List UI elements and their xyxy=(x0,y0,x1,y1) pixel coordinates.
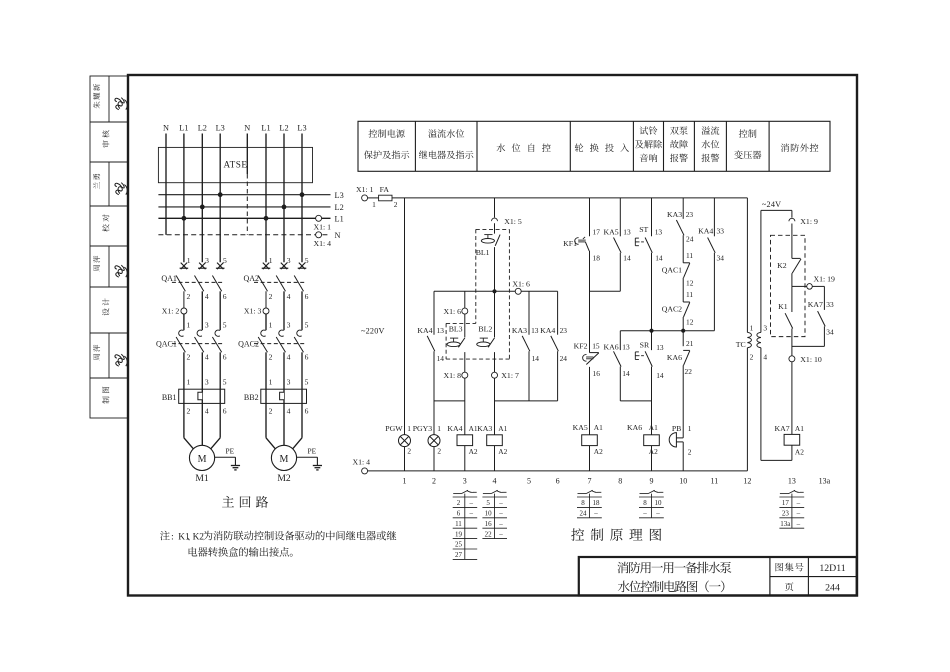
strip name cell 周萍 xyxy=(108,333,110,378)
svg-text:KA7: KA7 xyxy=(808,300,823,309)
svg-text:8: 8 xyxy=(643,499,647,507)
svg-text:KA6: KA6 xyxy=(667,353,682,362)
svg-text:~220V: ~220V xyxy=(361,326,385,335)
wire KA3 to QAC1 xyxy=(682,235,684,262)
svg-text:KA3: KA3 xyxy=(477,424,492,433)
wire KA3 contact to tie xyxy=(528,351,530,401)
svg-text:22: 22 xyxy=(485,530,493,538)
wire X1:6 to branch 6 xyxy=(521,290,557,292)
svg-text:A2: A2 xyxy=(469,447,478,456)
svg-text:14: 14 xyxy=(622,369,630,378)
terminal X1:5 xyxy=(492,218,498,221)
wire coil KA5 to rail xyxy=(589,446,591,471)
svg-text:4: 4 xyxy=(287,352,291,361)
svg-text:K2: K2 xyxy=(777,261,787,270)
signature scribble xyxy=(115,354,127,366)
svg-text:5: 5 xyxy=(223,320,227,329)
wire branch2-branch3 tie xyxy=(434,400,465,402)
svg-text:6: 6 xyxy=(223,292,227,301)
wire coil KA7 return to TC xyxy=(791,445,793,460)
header cell 溢流水位报警 xyxy=(702,126,720,135)
svg-text:14: 14 xyxy=(655,254,663,263)
svg-text:–: – xyxy=(469,499,474,507)
svg-text:15: 15 xyxy=(592,342,600,351)
header cell 控制电源保护及指示 xyxy=(369,129,405,137)
wire lamp PGW to rail xyxy=(404,447,406,471)
wire feeder drops source 1 xyxy=(183,134,185,263)
dashed enclosure BL1/BL2/BL3 xyxy=(476,228,510,230)
svg-text:A1: A1 xyxy=(649,423,658,432)
header cell 水位自控 xyxy=(497,143,551,151)
svg-text:13a: 13a xyxy=(819,476,831,485)
svg-text:6: 6 xyxy=(223,406,227,415)
svg-text:~24V: ~24V xyxy=(762,200,781,209)
junction dots on buses xyxy=(182,216,187,221)
wire alarm down to KA6 13-14 xyxy=(619,331,621,350)
svg-text:11: 11 xyxy=(686,290,693,299)
header cell 试铃及解除音响 xyxy=(640,126,658,134)
svg-text:A2: A2 xyxy=(594,447,603,456)
svg-text:1: 1 xyxy=(187,256,191,265)
svg-text:10: 10 xyxy=(654,499,662,507)
svg-text:L1: L1 xyxy=(335,215,344,224)
strip name cell 周萍 xyxy=(108,246,110,287)
svg-text:PGW: PGW xyxy=(385,424,403,433)
svg-text:TC: TC xyxy=(736,340,746,349)
header cell 轮换投入 xyxy=(575,143,629,152)
branch 4 wire from rail xyxy=(494,198,496,218)
wire coil KA3 to rail xyxy=(494,446,496,471)
wire X1:10 to coil KA7 xyxy=(791,362,793,435)
wire terminal to fuse xyxy=(368,197,379,199)
branch 1 wire xyxy=(404,198,406,435)
svg-text:KA7: KA7 xyxy=(775,424,790,433)
svg-text:FA: FA xyxy=(380,185,390,194)
circuit breaker QA1 xyxy=(181,263,187,270)
svg-text:–: – xyxy=(593,510,598,518)
svg-text:2: 2 xyxy=(187,406,191,415)
wire KA4 33-34 to alarm wire xyxy=(713,253,715,331)
svg-text:–: – xyxy=(655,510,660,518)
svg-text:22: 22 xyxy=(685,367,693,376)
title strip column xyxy=(90,76,128,418)
wire cable to motor M1 xyxy=(201,403,203,445)
wire KF1 to KF2 xyxy=(589,251,591,353)
relay coil KA7 xyxy=(784,434,800,445)
svg-text:2: 2 xyxy=(437,447,441,456)
svg-text:N: N xyxy=(244,124,250,133)
svg-text:N: N xyxy=(335,231,341,240)
svg-text:KA3: KA3 xyxy=(667,210,682,219)
junction dot branch 9 alarm xyxy=(649,329,653,333)
svg-text:–: – xyxy=(498,510,503,518)
svg-text:–: – xyxy=(642,510,647,518)
svg-text:4: 4 xyxy=(763,353,767,362)
svg-text:X1: 4: X1: 4 xyxy=(353,457,371,466)
svg-text:BL1: BL1 xyxy=(476,248,490,257)
terminal X1:6 inline xyxy=(515,288,521,294)
svg-text:QAC1: QAC1 xyxy=(156,340,177,349)
wire KA4 23-24 to tie xyxy=(557,351,559,401)
svg-text:L3: L3 xyxy=(216,124,225,133)
svg-text:11: 11 xyxy=(455,520,462,528)
svg-text:14: 14 xyxy=(532,354,540,363)
function header table xyxy=(358,121,830,171)
wire feeder drops source 2 xyxy=(265,134,267,263)
wire contactor to thermal relay xyxy=(265,352,267,389)
svg-text:12: 12 xyxy=(743,476,751,485)
terminal X1:10 xyxy=(789,356,795,362)
branch 6 wire xyxy=(557,291,559,334)
svg-text:1: 1 xyxy=(407,424,411,433)
svg-text:5: 5 xyxy=(486,499,490,507)
wire SR to coil KA6 xyxy=(651,367,653,435)
branch 5 wire xyxy=(528,291,530,334)
branch 11 wire from rail xyxy=(713,198,715,236)
svg-text:23: 23 xyxy=(686,210,694,219)
terminal X1:1 control feed xyxy=(362,195,368,201)
wire X1:19 to KA7 branch xyxy=(812,285,824,287)
branch 7 wire from rail xyxy=(589,198,591,236)
alarm bell PB xyxy=(669,433,676,447)
svg-text:17: 17 xyxy=(782,499,790,507)
svg-text:A1: A1 xyxy=(795,424,804,433)
terminal X1:6 branch 3 xyxy=(462,308,468,314)
wire BL1 junction to BL2 xyxy=(494,291,496,337)
branch 2 wire down xyxy=(433,291,435,334)
branch 9 wire from rail xyxy=(651,198,653,236)
bus L1 xyxy=(158,217,330,219)
svg-text:X1: 1: X1: 1 xyxy=(314,223,332,232)
svg-text:16: 16 xyxy=(485,520,493,528)
svg-text:4: 4 xyxy=(205,406,209,415)
contact usage table KA7 xyxy=(780,493,789,495)
svg-text:24: 24 xyxy=(560,354,568,363)
svg-text:4: 4 xyxy=(287,292,291,301)
svg-text:KA4: KA4 xyxy=(540,326,555,335)
svg-text:KA3: KA3 xyxy=(512,326,527,335)
svg-text:X1: 19: X1: 19 xyxy=(814,275,836,284)
atlas number label xyxy=(776,563,804,572)
terminal X1:9 xyxy=(789,218,795,221)
title block xyxy=(579,557,857,596)
svg-text:1: 1 xyxy=(269,377,273,386)
contact usage table KA4 xyxy=(453,493,461,495)
svg-text:KA6: KA6 xyxy=(604,342,619,351)
terminal X1:1 on bus L1 xyxy=(316,215,322,221)
indicator lamp PGW xyxy=(399,435,411,447)
svg-text:X1: 9: X1: 9 xyxy=(800,217,818,226)
svg-text:4: 4 xyxy=(205,352,209,361)
svg-text:8: 8 xyxy=(618,476,622,485)
svg-text:A1: A1 xyxy=(594,423,603,432)
branch 8 wire from rail xyxy=(619,198,621,236)
svg-text:M1: M1 xyxy=(195,473,209,484)
svg-text:X1: 6: X1: 6 xyxy=(512,280,530,289)
bottom rail neutral xyxy=(368,470,748,472)
svg-text:K1: K1 xyxy=(778,302,788,311)
float switch BL1 (overflow level) xyxy=(495,235,500,246)
svg-text:M: M xyxy=(198,454,207,465)
svg-text:13: 13 xyxy=(437,326,445,335)
relay coil KA3 xyxy=(487,435,503,446)
svg-text:244: 244 xyxy=(825,582,840,593)
svg-text:L2: L2 xyxy=(279,124,288,133)
svg-text:KF2: KF2 xyxy=(574,342,588,351)
svg-text:9: 9 xyxy=(650,476,654,485)
svg-text:ATSE: ATSE xyxy=(224,159,248,169)
thermal overload relay BB2 xyxy=(261,389,307,403)
svg-text:1: 1 xyxy=(688,424,692,433)
svg-text:1: 1 xyxy=(269,256,273,265)
branch 12 wire from rail to TC xyxy=(746,198,748,333)
strip name cell 兰勇 xyxy=(108,162,110,206)
wire cable to motor M2 xyxy=(283,403,285,445)
float switch BL3 xyxy=(458,338,465,348)
wire KA6 21-22 to bell xyxy=(682,365,684,438)
svg-text:2: 2 xyxy=(187,292,191,301)
svg-text:12D11: 12D11 xyxy=(819,563,845,574)
wire coil KA4 to rail xyxy=(464,446,466,471)
svg-text:KA4: KA4 xyxy=(698,227,713,236)
svg-text:13: 13 xyxy=(655,228,663,237)
relay coil KA4 xyxy=(457,435,473,446)
wire K1 to X1:10 xyxy=(791,329,793,356)
svg-text:KA6: KA6 xyxy=(627,423,642,432)
svg-text:8: 8 xyxy=(581,499,585,507)
wire K2 to X1:19 junction xyxy=(791,273,793,286)
wire QAC1 to QAC2 xyxy=(682,278,684,302)
title text xyxy=(617,562,731,574)
svg-text:6: 6 xyxy=(305,352,309,361)
wire TC secondary 24V xyxy=(760,210,762,332)
svg-text:3: 3 xyxy=(763,324,767,333)
PE ground for M2 xyxy=(297,456,318,458)
wire KF2 to coil KA5 xyxy=(589,367,591,435)
branch 4 wire BL2 xyxy=(488,338,495,348)
signature scribble xyxy=(115,183,127,195)
wire KA7 branch to X1:10 node xyxy=(823,326,825,346)
svg-text:2: 2 xyxy=(269,292,273,301)
svg-text:4: 4 xyxy=(205,292,209,301)
svg-text:13: 13 xyxy=(623,228,631,237)
terminal X1:4 on bus N xyxy=(316,232,322,238)
svg-text:33: 33 xyxy=(717,227,725,236)
svg-text:L3: L3 xyxy=(335,191,344,200)
svg-text:3: 3 xyxy=(463,476,467,485)
svg-text:16: 16 xyxy=(593,369,601,378)
svg-text:X1: 8: X1: 8 xyxy=(443,371,461,380)
PE ground for M1 xyxy=(215,456,236,458)
svg-text:A2: A2 xyxy=(795,447,804,456)
svg-text:X1: 3: X1: 3 xyxy=(244,307,262,316)
wire QAC2 to alarm junction xyxy=(682,317,684,346)
svg-text:34: 34 xyxy=(826,328,834,337)
bus L2 xyxy=(158,206,330,208)
svg-text:L2: L2 xyxy=(335,203,344,212)
wire X1:6 to BL3 xyxy=(464,314,466,337)
svg-text:5: 5 xyxy=(527,476,531,485)
svg-text:BL2: BL2 xyxy=(478,325,492,334)
terminal 2 xyxy=(181,308,187,314)
wire neutral drop source 2 (dashed below ATSE) xyxy=(246,134,248,175)
note text line 2 xyxy=(189,547,293,557)
svg-text:X1: 7: X1: 7 xyxy=(501,371,519,380)
branch 10 wire from rail xyxy=(682,198,684,219)
svg-text:M: M xyxy=(280,454,289,465)
svg-text:25: 25 xyxy=(455,541,463,549)
svg-text:1: 1 xyxy=(372,200,376,209)
svg-text:6: 6 xyxy=(457,510,461,518)
svg-text:1: 1 xyxy=(750,324,754,333)
ATSE changeover switch box xyxy=(158,147,312,182)
svg-text:PE: PE xyxy=(308,446,317,455)
svg-text:4: 4 xyxy=(287,406,291,415)
wire X1:8 down to coil KA4 xyxy=(464,378,466,435)
svg-text:L2: L2 xyxy=(198,124,207,133)
svg-text:SR: SR xyxy=(640,341,650,350)
svg-text:QAC2: QAC2 xyxy=(662,305,682,314)
svg-text:3: 3 xyxy=(287,320,291,329)
svg-text:QA1: QA1 xyxy=(161,274,177,283)
svg-text:6: 6 xyxy=(223,352,227,361)
svg-text:–: – xyxy=(796,510,801,518)
svg-text:6: 6 xyxy=(305,292,309,301)
svg-text::: : xyxy=(171,533,174,543)
svg-text:1: 1 xyxy=(269,320,273,329)
svg-text:3: 3 xyxy=(287,256,291,265)
svg-text:A2: A2 xyxy=(649,447,658,456)
svg-text:X1: 1: X1: 1 xyxy=(356,185,374,194)
svg-text:–: – xyxy=(498,530,503,538)
junction dot branch 4 xyxy=(492,289,496,293)
bus L3 xyxy=(158,194,330,196)
svg-text:11: 11 xyxy=(711,476,719,485)
strip role cell 制图 xyxy=(102,387,109,404)
svg-text:–: – xyxy=(469,510,474,518)
wire coil KA6 to rail xyxy=(651,446,653,471)
svg-text:KA5: KA5 xyxy=(573,423,588,432)
svg-text:12: 12 xyxy=(686,318,694,327)
wire breaker to contactor xyxy=(183,291,185,308)
svg-text:18: 18 xyxy=(592,499,600,507)
svg-text:–: – xyxy=(498,520,503,528)
svg-text:–: – xyxy=(796,499,801,507)
svg-text:14: 14 xyxy=(623,254,631,263)
svg-text:5: 5 xyxy=(305,320,309,329)
wire X1:9 to K2 xyxy=(791,224,793,259)
svg-text:5: 5 xyxy=(223,377,227,386)
wire X1:5 to BL1 xyxy=(494,223,496,233)
svg-text:24: 24 xyxy=(579,510,587,518)
svg-text:6: 6 xyxy=(305,406,309,415)
svg-text:KA4: KA4 xyxy=(447,424,462,433)
terminal 3 xyxy=(263,308,269,314)
svg-text:2: 2 xyxy=(457,499,461,507)
wire bell PB to rail xyxy=(682,442,684,471)
note text line 1 xyxy=(160,531,170,541)
svg-text:X1: 6: X1: 6 xyxy=(443,307,461,316)
svg-text:21: 21 xyxy=(686,339,694,348)
svg-text:PGY3: PGY3 xyxy=(413,424,433,433)
indicator lamp PGY3 xyxy=(428,435,440,447)
strip name cell 朱耀新 xyxy=(108,76,110,122)
wire branch 8 tie at 291 xyxy=(590,290,621,292)
svg-text:A1: A1 xyxy=(498,424,507,433)
svg-text:12: 12 xyxy=(686,278,694,287)
svg-text:27: 27 xyxy=(455,551,463,559)
svg-text:13: 13 xyxy=(788,476,796,485)
svg-text:33: 33 xyxy=(826,300,834,309)
svg-text:13: 13 xyxy=(531,326,539,335)
control circuit caption 控制原理图 xyxy=(571,528,661,541)
svg-text:14: 14 xyxy=(656,371,664,380)
terminal X1:8 xyxy=(462,372,468,378)
wire tie to branch 4 xyxy=(495,400,558,402)
wire breaker to contactor xyxy=(265,291,267,308)
dashed enclosure K1 K2 (fire interface) xyxy=(771,235,806,336)
relay coil KA5 xyxy=(582,435,598,446)
svg-text:1: 1 xyxy=(187,320,191,329)
contact usage table KA6 xyxy=(640,493,649,495)
contact usage table KA3 xyxy=(483,493,491,495)
svg-text:3: 3 xyxy=(205,320,209,329)
svg-text:5: 5 xyxy=(223,256,227,265)
svg-text:QAC2: QAC2 xyxy=(238,340,259,349)
branch 3 wire from junction xyxy=(464,291,466,308)
terminal X1:7 xyxy=(492,372,498,378)
wire neutral drop source 1 xyxy=(165,134,167,235)
svg-text:BB2: BB2 xyxy=(244,393,259,402)
wire KA5 contact to tie xyxy=(619,253,621,291)
svg-text:2: 2 xyxy=(187,352,191,361)
svg-text:1: 1 xyxy=(403,476,407,485)
strip role cell 审核 xyxy=(102,130,109,147)
wire BL3 to X1:8 xyxy=(464,352,466,372)
svg-text:2: 2 xyxy=(394,200,398,209)
svg-text:3: 3 xyxy=(287,377,291,386)
signature scribble xyxy=(115,265,127,277)
svg-text:10: 10 xyxy=(485,510,493,518)
main circuit caption 主回路 xyxy=(222,496,268,508)
svg-text:L1: L1 xyxy=(179,124,188,133)
svg-text:1: 1 xyxy=(437,424,441,433)
svg-text:X1: 4: X1: 4 xyxy=(314,239,332,248)
svg-text:KA5: KA5 xyxy=(604,228,619,237)
circuit breaker QA2 xyxy=(263,263,269,270)
wire X1:7 to coil KA3 xyxy=(494,378,496,435)
svg-text:2: 2 xyxy=(269,352,273,361)
wire BL1 down to junction xyxy=(494,247,496,291)
svg-text:X1: 2: X1: 2 xyxy=(162,307,180,316)
svg-text:23: 23 xyxy=(560,326,568,335)
svg-text:K2: K2 xyxy=(193,533,205,543)
svg-text:7: 7 xyxy=(588,476,592,485)
svg-text:PE: PE xyxy=(226,446,235,455)
wire ST to SR xyxy=(651,253,653,350)
svg-text:X1: 10: X1: 10 xyxy=(800,355,822,364)
top rail 220V xyxy=(392,197,747,199)
terminal X1:19 xyxy=(807,284,813,290)
svg-text:34: 34 xyxy=(717,254,725,263)
svg-text:4: 4 xyxy=(493,476,497,485)
svg-text:A2: A2 xyxy=(498,447,507,456)
svg-text:L1: L1 xyxy=(261,124,270,133)
thermal overload relay BB1 xyxy=(179,389,225,403)
svg-text:10: 10 xyxy=(679,476,687,485)
signature scribble xyxy=(115,98,127,110)
svg-text:QAC1: QAC1 xyxy=(662,265,682,274)
